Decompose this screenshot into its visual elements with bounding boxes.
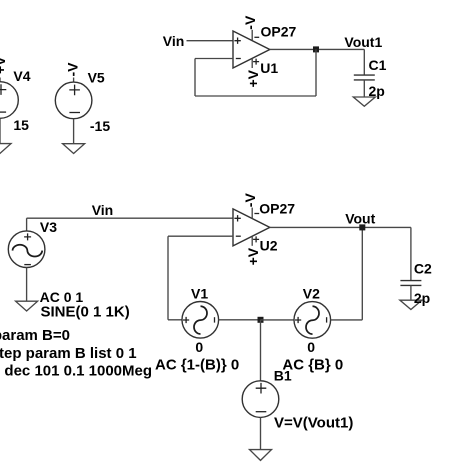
wire Vin to U1 noninverting input <box>187 40 234 42</box>
V3 sine squiggle <box>13 245 43 257</box>
U2 noninverting input marking <box>234 215 240 221</box>
U1 noninverting input marking <box>234 38 240 44</box>
V2 plus marking <box>295 317 301 323</box>
svg-text:V5: V5 <box>88 70 105 86</box>
B1 minus marking <box>256 411 267 413</box>
svg-text:C1: C1 <box>369 57 387 73</box>
V1 sine squiggle (vertical) <box>194 306 207 334</box>
voltage source V4 (partially off left edge) <box>0 56 31 154</box>
voltage source V5 <box>55 62 110 154</box>
V2 minus marking <box>326 317 328 322</box>
U1 V+ power pin <box>251 59 253 68</box>
V4 plus marking <box>0 84 6 95</box>
capacitor C1 <box>353 49 386 106</box>
V4 minus marking <box>0 111 6 113</box>
V5 circle <box>55 82 92 119</box>
B1 bottom wire <box>260 417 262 449</box>
svg-text:SINE(0 1 1K): SINE(0 1 1K) <box>41 304 130 321</box>
V3 circle <box>8 231 45 268</box>
U1 V- pin minus marking <box>254 36 259 38</box>
U2 triangle body <box>233 209 270 246</box>
V2 sine squiggle (vertical) <box>306 306 319 334</box>
V3 plus marking <box>24 233 31 240</box>
wire junction down to B1 <box>260 320 262 381</box>
svg-text:V4: V4 <box>13 68 30 84</box>
wire stub above V5 <box>73 78 75 83</box>
svg-text:-V: -V <box>242 15 258 30</box>
C2 top lead <box>410 227 412 280</box>
op-amp U2 <box>233 193 295 266</box>
V5 minus marking <box>69 112 80 114</box>
U1 inverting input marking <box>236 58 241 60</box>
U1 V+ pin plus marking <box>253 59 259 65</box>
C1 bottom lead <box>363 80 365 97</box>
svg-text:15: 15 <box>13 117 29 133</box>
wire junction to V2 <box>261 319 295 321</box>
wire U1 output to C1 <box>270 48 365 50</box>
C2 plates <box>400 281 421 286</box>
svg-text:.ac dec 101 0.1 1000Meg: .ac dec 101 0.1 1000Meg <box>0 363 152 380</box>
ground below C1 <box>353 97 375 106</box>
voltage source V3 <box>8 218 57 311</box>
wire V3 to U2 noninverting input <box>27 217 233 219</box>
U2 inverting input marking <box>236 235 241 237</box>
svg-text:V=V(Vout1): V=V(Vout1) <box>274 414 353 431</box>
U2 V+ power pin <box>251 237 253 246</box>
wire V2 to Vout vertical <box>331 227 363 320</box>
svg-text:-15: -15 <box>90 118 110 134</box>
ground below B1 <box>250 450 272 461</box>
capacitor C2 <box>400 227 432 309</box>
svg-text:U2: U2 <box>260 238 278 254</box>
op-amp U1 <box>233 15 297 87</box>
wire stub above V4 <box>0 78 1 83</box>
V1 minus marking <box>214 317 216 322</box>
ground below V4 <box>0 144 11 154</box>
svg-text:Vout: Vout <box>345 211 375 227</box>
V3 minus marking <box>24 264 31 266</box>
junction below U2 <box>258 317 264 323</box>
wire U1 feedback (output down, across, up to inverting input) <box>195 49 316 96</box>
voltage source V1 <box>182 285 219 355</box>
U2 V- pin minus marking <box>254 213 259 215</box>
B1 circle <box>242 381 279 418</box>
svg-text:.step param B list 0 1: .step param B list 0 1 <box>0 345 137 362</box>
U1 V- power pin <box>251 30 253 41</box>
wire V5 to ground <box>73 119 75 144</box>
voltage source V2 <box>261 285 331 355</box>
wire V4 to ground <box>0 118 1 143</box>
svg-text:V1: V1 <box>191 285 208 301</box>
svg-text:-V: -V <box>242 193 258 208</box>
svg-text:U1: U1 <box>260 60 278 76</box>
svg-text:.param B=0: .param B=0 <box>0 327 70 344</box>
behavioral source B1 <box>242 320 353 461</box>
V4 circle <box>0 82 18 119</box>
svg-text:2p: 2p <box>369 83 385 99</box>
junction at Vout1 <box>313 46 319 52</box>
svg-text:AC {1-(B)} 0: AC {1-(B)} 0 <box>155 357 239 374</box>
svg-text:-V: -V <box>65 62 81 77</box>
C1 plates <box>354 75 375 80</box>
U2 V- power pin <box>251 208 253 219</box>
U1 triangle body <box>233 31 270 68</box>
svg-text:B1: B1 <box>274 368 292 384</box>
V2 circle <box>294 302 331 339</box>
C1 top lead <box>363 49 365 75</box>
V3 top stub <box>26 218 28 231</box>
svg-text:Vout1: Vout1 <box>344 34 382 50</box>
ground below C2 <box>400 300 422 309</box>
V5 plus marking <box>69 85 80 96</box>
svg-text:0: 0 <box>195 339 203 355</box>
junction at Vout <box>359 224 365 230</box>
svg-text:2p: 2p <box>414 290 430 306</box>
svg-text:C2: C2 <box>414 260 432 276</box>
svg-text:Vin: Vin <box>92 202 114 218</box>
ground below V5 <box>63 144 85 154</box>
U2 V+ pin plus marking <box>253 236 259 242</box>
svg-text:OP27: OP27 <box>261 24 297 40</box>
V3 bottom wire <box>26 268 28 302</box>
C2 bottom lead <box>410 285 412 300</box>
wire V1 to junction <box>219 319 261 321</box>
svg-text:Vin: Vin <box>163 33 185 49</box>
ground below V3 <box>16 301 38 311</box>
svg-text:V2: V2 <box>303 285 320 301</box>
svg-text:OP27: OP27 <box>259 200 295 216</box>
B1 plus marking <box>256 383 267 394</box>
wire U2 inverting input feedback to V1 <box>168 236 233 320</box>
svg-text:V3: V3 <box>40 219 57 235</box>
svg-text:0: 0 <box>307 339 315 355</box>
wire U2 output to C2 <box>270 226 411 228</box>
svg-text:+V: +V <box>245 69 261 87</box>
V1 plus marking <box>183 317 189 323</box>
svg-text:+V: +V <box>0 56 8 74</box>
V1 circle <box>182 302 219 339</box>
svg-text:+V: +V <box>245 247 261 265</box>
